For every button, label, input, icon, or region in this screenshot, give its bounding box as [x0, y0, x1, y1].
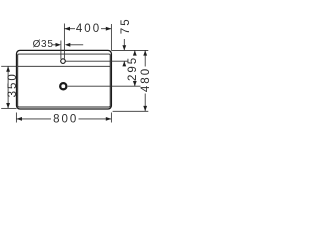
svg-text:350: 350: [7, 72, 19, 97]
svg-text:400: 400: [76, 23, 101, 35]
svg-text:Ø35: Ø35: [33, 39, 54, 50]
svg-text:480: 480: [140, 67, 150, 92]
svg-text:75: 75: [120, 17, 132, 34]
svg-text:800: 800: [53, 114, 78, 126]
svg-text:295: 295: [127, 56, 139, 81]
